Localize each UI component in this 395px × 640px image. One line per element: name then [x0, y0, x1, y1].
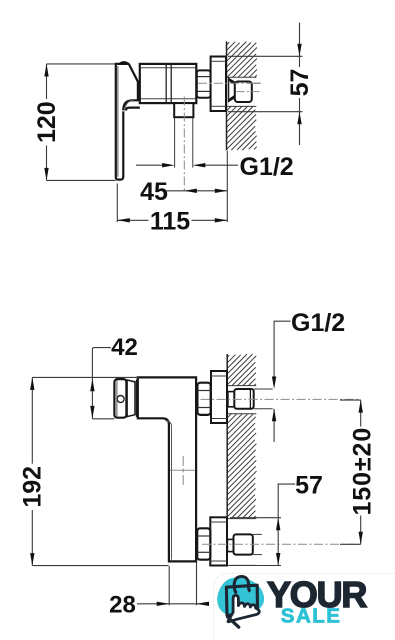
svg-text:G1/2: G1/2 [291, 309, 345, 337]
dimension 28 [137, 562, 204, 606]
lower hex nut (bottom view) [197, 528, 210, 559]
upper wall fitting (bottom view) [228, 389, 254, 409]
handle cap bump [118, 61, 131, 64]
logo teal blob [217, 578, 264, 617]
logo white card [214, 574, 395, 640]
dimension G1/2 (bottom) leader [274, 321, 290, 442]
svg-text:57: 57 [295, 471, 323, 499]
dimension 115 [117, 151, 227, 222]
svg-text:192: 192 [19, 466, 47, 508]
mixer body (top view) [140, 64, 197, 103]
dimension 192 [32, 377, 168, 565]
wall hatching (bottom view) [227, 354, 256, 518]
hex nut (top view) [197, 70, 211, 97]
logo hand cursor [228, 595, 259, 621]
svg-text:42: 42 [111, 334, 138, 361]
svg-text:G1/2: G1/2 [240, 153, 294, 181]
dimension 45 [167, 190, 228, 192]
svg-text:45: 45 [140, 178, 168, 206]
wall cutout edges (bottom view) [228, 386, 256, 566]
lever handle (top view) [116, 64, 140, 180]
dimension 42 leader [92, 348, 114, 419]
logo shopping bag [226, 576, 257, 615]
handle collar (bottom view) [127, 379, 136, 417]
dimension 57 (top right) [228, 23, 303, 146]
wall face line (bottom view) [226, 354, 228, 566]
upper hex nut (bottom view) [197, 383, 210, 415]
wall cutout edges [227, 77, 256, 106]
mixer body L-shape (bottom view) [138, 377, 196, 561]
upper wall plate (bottom view) [211, 371, 227, 423]
pipe fitting in wall (top view) [228, 77, 261, 102]
pipe center cross mark [170, 456, 195, 485]
outlet pipe extension lines [175, 118, 193, 168]
wall hatching (top view) [227, 42, 257, 151]
outlet centerline [183, 97, 185, 192]
svg-text:57: 57 [286, 69, 314, 97]
svg-text:28: 28 [109, 591, 136, 618]
logo wrist stroke [228, 617, 239, 627]
upper supply centerline [201, 398, 361, 400]
faucet centerline (top view) [198, 82, 261, 84]
body inner highlight (bottom view) [165, 421, 171, 560]
svg-text:120: 120 [33, 101, 61, 143]
lower wall fitting (bottom view) [227, 534, 252, 554]
svg-text:150±20: 150±20 [349, 427, 377, 516]
dimension 120 (top left) [47, 64, 116, 180]
lower supply centerline [202, 543, 361, 545]
handle knob (bottom view) [114, 379, 126, 418]
handle inner highlight lines [118, 66, 134, 177]
svg-text:SALE: SALE [281, 605, 342, 628]
dimension 150±20 [340, 400, 361, 544]
wall face line [226, 42, 228, 151]
svg-text:115: 115 [150, 208, 190, 236]
wall plate (escutcheon, top view) [211, 57, 226, 112]
fitting centerline (top view) [237, 91, 263, 93]
lower wall plate (bottom view) [210, 517, 227, 565]
dimension G1/2 (top) [136, 164, 238, 166]
outlet flange below body [174, 103, 193, 117]
dimension 57 (bottom) leader [230, 484, 295, 565]
